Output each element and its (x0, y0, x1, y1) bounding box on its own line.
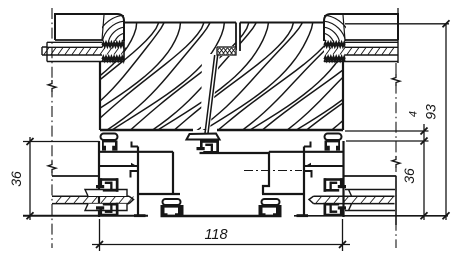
left gasket bottom (85, 204, 127, 211)
right rail line H1r (269, 151, 344, 153)
left seal barb (131, 163, 138, 167)
left hook bottom (131, 171, 139, 178)
slot left wall (235, 23, 237, 51)
dim right inner ticks (421, 128, 428, 135)
left guide bracket (161, 205, 184, 217)
profile bottom line (23, 215, 148, 217)
dim 93 ticks (443, 20, 450, 27)
left panel hatch (52, 196, 134, 203)
right wood block grain (343, 15, 345, 40)
right gasket bottom (345, 204, 395, 211)
dim right inner line (423, 124, 425, 220)
right guide bracket (259, 205, 282, 217)
right sash vertical V2r (303, 147, 305, 215)
beam right edge (342, 62, 344, 130)
right seal bottom (324, 58, 345, 61)
dim 4 ext bottom (346, 140, 429, 142)
left package right edge (123, 41, 125, 62)
dim 118 line (92, 244, 350, 246)
right wall axis (397, 8, 399, 14)
right gasket top (345, 190, 395, 197)
left strip lines (47, 42, 124, 61)
svg-text:4: 4 (408, 111, 420, 117)
hanger rod (205, 55, 215, 134)
left gasket top (85, 190, 127, 197)
right seal top (324, 44, 345, 47)
left top rail cap (101, 134, 118, 141)
beam left edge (99, 62, 101, 130)
left clamp bottom (96, 203, 119, 217)
left jamb vertical V1 (98, 141, 100, 217)
dim 118 ticks (96, 241, 103, 248)
left box bottom (55, 39, 102, 41)
beam top edge (124, 22, 236, 24)
dim 36 left ext top (23, 141, 99, 143)
left guide cap (163, 199, 181, 205)
right hook bottom (304, 171, 312, 178)
right clamp top (324, 178, 347, 192)
right clamp bottom (324, 203, 347, 217)
dim 36 left ticks (27, 138, 34, 145)
left seal line H2 (99, 165, 138, 167)
right strip lines (324, 14, 398, 63)
left wood block grain (102, 15, 104, 40)
left seal bottom (102, 58, 124, 61)
center rail line (200, 152, 270, 154)
right top rail bracket (325, 141, 341, 151)
svg-text:93: 93 (423, 104, 439, 120)
left seal top (102, 44, 124, 47)
dim 36 left line (29, 137, 31, 220)
right panel hatch (309, 196, 395, 203)
left trim box (55, 14, 124, 41)
right stile box (262, 152, 303, 194)
svg-text:118: 118 (204, 227, 227, 243)
track centerline (244, 170, 302, 172)
right seal barb (304, 163, 311, 167)
slot right wall (239, 23, 241, 52)
trolley plate (187, 134, 220, 140)
left hook top (132, 142, 139, 147)
wood grain of lintel beam (0, 23, 456, 131)
center clamp profile (197, 140, 220, 154)
left strip hatch (42, 47, 47, 55)
left wall axis (51, 8, 53, 248)
left rail line H1 (99, 151, 173, 153)
right reveal line (344, 175, 397, 177)
left sash vertical V2 (137, 147, 139, 215)
dim 93 ext top (345, 23, 449, 25)
svg-text:36: 36 (401, 168, 417, 184)
dim 93 line (445, 24, 447, 220)
right trim box (324, 14, 398, 41)
left reveal line (52, 175, 99, 177)
dim 118 ext right (342, 219, 344, 251)
dim 118 ext left (99, 219, 101, 251)
right seal line H2r (304, 165, 344, 167)
right top rail cap (325, 134, 342, 141)
right guide cap (262, 199, 280, 205)
left stile box (139, 152, 180, 194)
right strip hatch (326, 48, 394, 55)
right box bottom (345, 39, 398, 41)
left top rail bracket (102, 141, 118, 151)
dim 4 ext top (345, 130, 429, 132)
right hook top (304, 142, 311, 147)
right jamb vertical V1r (342, 141, 344, 217)
left clamp top (96, 178, 119, 192)
svg-text:36: 36 (8, 171, 24, 187)
hanger gasket block (217, 47, 236, 55)
beam bottom edge (100, 129, 193, 131)
